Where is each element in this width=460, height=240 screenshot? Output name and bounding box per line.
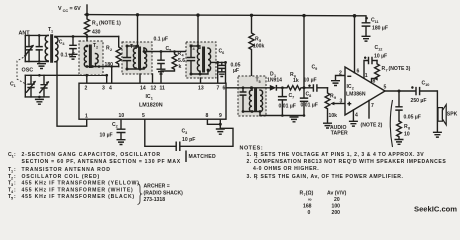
IC1 labels: [139, 94, 163, 109]
svg-text:0.1 µF: 0.1 µF: [61, 53, 76, 59]
wire pin8 pin9 to ground: [207, 119, 221, 128]
resistor R4 5.6k: [161, 50, 185, 83]
svg-text:14: 14: [140, 86, 146, 92]
transformer T3 IF dashed box: [122, 42, 152, 74]
capacitor C3 10pF on pin5 wire: [145, 119, 233, 151]
svg-text:NOTES:: NOTES:: [240, 146, 264, 152]
capacitor C1 gang dashed link: [10, 56, 27, 89]
svg-text:10: 10: [404, 132, 410, 138]
ground potentiometer: [323, 123, 332, 128]
transformer T1 antenna rod: [45, 27, 87, 126]
capacitor OSC trimmer (variable): [38, 74, 49, 98]
capacitor C10 250uF output: [411, 81, 438, 105]
wire detector bottom rail: [260, 115, 304, 117]
svg-text:250 µF: 250 µF: [411, 98, 427, 104]
svg-text:430: 430: [92, 30, 101, 36]
bracket for zobel network: [390, 100, 392, 147]
capacitor C4 0.1uF: [59, 35, 78, 59]
wire ANT tank bottom: [25, 61, 48, 63]
ARCHER radio shack bracket: [138, 184, 184, 205]
svg-text:CC: CC: [63, 9, 69, 13]
wire pin6 stub: [225, 62, 227, 83]
transformer T2 oscillator coil dashed box: [79, 41, 103, 75]
svg-text:13: 13: [198, 86, 204, 92]
wire T3 secondary to T4: [144, 48, 190, 52]
transformer T2 windings: [84, 43, 98, 68]
svg-text:12: 12: [378, 48, 382, 52]
node OSC wire taps to pin2 pin3: [85, 74, 108, 77]
svg-text:7: 7: [292, 96, 294, 100]
svg-text::: :: [14, 174, 17, 180]
capacitor C12 10uF gain: [364, 45, 387, 79]
svg-text:4: 4: [355, 113, 358, 119]
wire pin13 stub: [200, 78, 202, 83]
svg-text:SeekIC.com: SeekIC.com: [414, 205, 457, 214]
wire pin7 stub: [217, 62, 219, 83]
resistor R5 100k: [249, 15, 265, 88]
resistor R1 430: [84, 15, 121, 46]
resistor R7 gain set: [372, 61, 411, 85]
svg-text:∞: ∞: [308, 197, 312, 203]
svg-text:100: 100: [332, 204, 341, 210]
diode D1 1N914: [267, 72, 282, 91]
svg-text:168: 168: [303, 204, 312, 210]
node VCC supply label: [58, 5, 87, 15]
capacitor C13 0.05uF zobel: [395, 91, 421, 121]
wire oscillator node to IC pins: [25, 74, 106, 76]
ground pins 8,9: [216, 129, 225, 134]
svg-text:6: 6: [223, 86, 226, 92]
capacitor ANT trimmer: [36, 34, 43, 63]
node detector junction: [303, 86, 306, 89]
svg-text:k: k: [179, 64, 182, 70]
svg-text:1: 1: [365, 73, 368, 79]
svg-text:7: 7: [386, 69, 388, 73]
svg-text:20: 20: [334, 197, 340, 203]
svg-text:SETS THE VOLTAGE AT PINS 1, 2,: SETS THE VOLTAGE AT PINS 1, 2, 3 & 4 TO …: [261, 152, 425, 158]
resistor R6 1k: [282, 72, 304, 90]
svg-text:0.01 µF: 0.01 µF: [301, 103, 318, 109]
capacitor C2 10uF: [100, 119, 126, 144]
svg-text:7: 7: [217, 86, 220, 92]
capacitor C6 0.05uF: [218, 49, 241, 77]
svg-text:12: 12: [151, 86, 157, 92]
svg-text:7: 7: [371, 103, 374, 109]
svg-text:0: 0: [308, 210, 311, 216]
NOTES text block: [240, 146, 447, 181]
svg-text:(Ω): (Ω): [306, 191, 314, 197]
svg-text:1: 1: [85, 114, 88, 120]
wire ANT tank left: [24, 35, 26, 61]
svg-text:180 µF: 180 µF: [372, 26, 388, 32]
svg-text:1k: 1k: [293, 78, 299, 84]
svg-text:3: 3: [340, 99, 343, 105]
wire pin2 stub and ground: [331, 71, 345, 86]
ground zobel: [395, 140, 404, 145]
wire T2/R2 bottom to pins: [86, 65, 119, 68]
svg-text:455 KHz IF TRANSFORMER (YELLOW: 455 KHz IF TRANSFORMER (YELLOW): [22, 181, 140, 187]
potentiometer R9 10k audio taper: [325, 88, 337, 123]
svg-text:3: 3: [102, 86, 105, 92]
svg-text:8: 8: [309, 94, 311, 98]
wire rail drop to detector node: [303, 16, 305, 88]
capacitor C5 0.1uF: [154, 37, 172, 75]
svg-text:0.05 µF: 0.05 µF: [404, 115, 421, 121]
capacitor C1b oscillator section (variable): [26, 75, 36, 97]
svg-text:1: 1: [51, 30, 53, 34]
svg-text:OSCILLATOR COIL (RED): OSCILLATOR COIL (RED): [22, 174, 101, 180]
svg-text:9: 9: [334, 96, 336, 100]
op-amp IC2 LM386N triangle: [345, 67, 385, 115]
svg-text:1: 1: [151, 97, 153, 101]
gain table: [300, 191, 347, 217]
svg-text:(NOTE 2): (NOTE 2): [361, 123, 383, 129]
svg-text:SPK: SPK: [447, 112, 458, 118]
svg-text:10: 10: [119, 113, 125, 119]
wire top supply rail: [85, 15, 355, 16]
svg-text:2: 2: [339, 71, 342, 77]
svg-text:2: 2: [110, 48, 112, 52]
svg-text:1N914: 1N914: [267, 78, 282, 84]
wiper arrow to pin3: [330, 99, 345, 106]
ground ANT tank: [37, 64, 46, 69]
wire pin4 stub: [111, 67, 113, 84]
component list text block: [8, 152, 181, 201]
capacitor C11 180uF supply bypass: [362, 17, 388, 41]
svg-text:= 6V: = 6V: [70, 6, 82, 12]
speaker SPK: [433, 91, 458, 137]
wire pin6 supply drop: [355, 16, 360, 75]
wire pin4 stub and ground: [349, 110, 358, 126]
IC1 bottom pin numbers: [85, 113, 222, 120]
ground detector rail: [290, 117, 299, 122]
svg-text:ARCHER =: ARCHER =: [144, 184, 170, 190]
wire T1 secondary top to R2: [55, 36, 119, 38]
svg-text:TRANSISTOR ANTENNA ROD: TRANSISTOR ANTENNA ROD: [22, 167, 111, 173]
capacitor C1a antenna section (variable): [24, 35, 34, 61]
svg-text:10 µF: 10 µF: [374, 54, 387, 60]
svg-text:10 µF: 10 µF: [100, 133, 113, 139]
MATCHED bracket label: [186, 151, 216, 163]
node rail junction dots: [85, 13, 356, 18]
svg-text:5: 5: [142, 113, 145, 119]
svg-text:10 µF: 10 µF: [304, 78, 317, 84]
wire pin7 stub: [369, 101, 374, 119]
svg-text:9: 9: [315, 67, 317, 71]
svg-text:5: 5: [169, 49, 171, 53]
transformer T5 windings and capacitor: [226, 78, 270, 116]
capacitor C7 0.01uF: [278, 86, 296, 116]
wire pin14 stub: [139, 74, 141, 83]
svg-text:MATCHED: MATCHED: [189, 154, 217, 160]
svg-text:10k: 10k: [329, 113, 338, 119]
svg-text:4: 4: [109, 86, 112, 92]
svg-text:2-SECTION GANG CAPACITOR, OSCI: 2-SECTION GANG CAPACITOR, OSCILLATOR: [22, 152, 161, 158]
wire pin3 stub: [106, 75, 108, 83]
svg-text:OSC: OSC: [22, 68, 34, 74]
svg-text:LM386N: LM386N: [346, 92, 366, 98]
svg-text:6: 6: [222, 51, 224, 55]
svg-text:10: 10: [425, 83, 429, 87]
svg-text:5: 5: [259, 80, 261, 84]
svg-text:3: 3: [185, 131, 187, 135]
wire T4 secondary out: [211, 61, 227, 64]
svg-text:(NOTE 1): (NOTE 1): [99, 21, 121, 27]
svg-text:4-0 OHMS OR HIGHER.: 4-0 OHMS OR HIGHER.: [253, 166, 319, 172]
svg-text:SETS THE GAIN, Av, OF THE POW: SETS THE GAIN, Av, OF THE POWER AMPLIFIE…: [261, 174, 404, 180]
svg-text::: :: [14, 194, 17, 200]
svg-text:200: 200: [332, 210, 341, 216]
svg-text:11: 11: [375, 20, 379, 24]
AUDIO TAPER label: [330, 125, 348, 137]
transformer T3 windings and capacitor: [123, 44, 147, 71]
svg-text:100k: 100k: [253, 44, 264, 50]
svg-text:455 KHz IF TRANSFORMER (BLACK): 455 KHz IF TRANSFORMER (BLACK): [22, 194, 135, 200]
svg-text:8: 8: [373, 79, 376, 85]
svg-text:2: 2: [116, 125, 118, 129]
svg-text:2: 2: [96, 46, 98, 50]
svg-text:Av (V/V): Av (V/V): [327, 191, 347, 197]
resistor R2 180: [105, 37, 122, 69]
svg-text:273-1318: 273-1318: [144, 197, 166, 203]
svg-text:1: 1: [255, 155, 258, 159]
svg-text:6: 6: [357, 69, 360, 75]
wire rail to T4 primary: [197, 15, 199, 46]
capacitor C8 0.01uF: [300, 88, 318, 117]
svg-text:455 KHz IF TRANSFORMER (WHITE): 455 KHz IF TRANSFORMER (WHITE): [22, 187, 134, 193]
svg-text:SECTION = 60 PF, ANTENNA SEC: SECTION = 60 PF, ANTENNA SECTION = 130 P…: [22, 159, 181, 165]
svg-text:(RADIO SHACK): (RADIO SHACK): [144, 190, 184, 196]
svg-text:8: 8: [206, 113, 209, 119]
svg-text:180: 180: [105, 62, 114, 68]
svg-text:8: 8: [408, 127, 410, 131]
transformer T4 IF dashed box: [186, 42, 216, 78]
resistor R8 10 zobel: [397, 121, 411, 139]
transformer T4 windings and capacitor: [187, 45, 211, 76]
wire rail to T3 primary: [137, 15, 139, 46]
svg-text:5: 5: [259, 39, 261, 43]
svg-text:11: 11: [160, 86, 166, 92]
wire OSC tank bottom: [25, 96, 49, 98]
svg-text:TAPER: TAPER: [331, 131, 348, 137]
capacitor C9 10uF coupling: [304, 65, 328, 92]
ground OSC tank: [35, 99, 44, 104]
IC1 top pin numbers: [85, 86, 226, 92]
wire pin12 stub: [152, 74, 154, 83]
wire output pin5: [384, 85, 416, 93]
svg-text:V: V: [58, 6, 62, 12]
svg-text:1: 1: [96, 23, 98, 27]
svg-text:2. COMPENSATION R8C13 NOT REQ': 2. COMPENSATION R8C13 NOT REQ'D WITH SPE…: [247, 159, 447, 165]
svg-text::: :: [14, 167, 17, 173]
svg-text:(NOTE 3): (NOTE 3): [389, 66, 411, 72]
svg-text:0.01 µF: 0.01 µF: [279, 104, 296, 110]
transformer T5 IF dashed box: [238, 76, 266, 116]
svg-text::: :: [14, 181, 17, 187]
op-amp IC1 LM1820N box: [79, 83, 226, 119]
svg-text:µF: µF: [233, 68, 239, 74]
svg-text:LM1820N: LM1820N: [139, 103, 163, 109]
svg-text:0.1 µF: 0.1 µF: [154, 37, 169, 43]
svg-text:5: 5: [384, 85, 387, 91]
wire ANT tank top: [25, 34, 48, 36]
svg-text:1: 1: [14, 84, 16, 88]
svg-text:7: 7: [255, 177, 258, 181]
svg-text:2: 2: [352, 87, 354, 91]
svg-text::: :: [14, 187, 17, 193]
wire OSC tank left: [24, 75, 26, 97]
svg-text::: :: [14, 152, 17, 158]
svg-text:9: 9: [219, 113, 222, 119]
wire pin2 stub: [86, 75, 88, 83]
svg-text:2: 2: [85, 86, 88, 92]
wire C11 stub: [355, 16, 367, 21]
svg-text:10 pF: 10 pF: [182, 137, 195, 143]
